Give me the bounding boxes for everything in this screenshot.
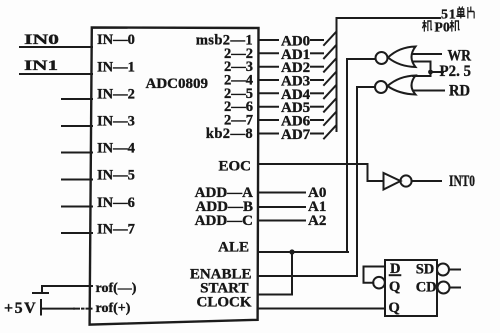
svg-text:IN—7: IN—7 <box>97 222 135 238</box>
svg-text:ALE: ALE <box>218 240 249 256</box>
svg-text:INT0: INT0 <box>449 173 475 190</box>
svg-text:ADD—C: ADD—C <box>195 213 253 229</box>
svg-text:WR: WR <box>448 48 472 65</box>
svg-text:Q: Q <box>389 279 400 295</box>
svg-text:IN—1: IN—1 <box>97 60 135 76</box>
svg-text:A2: A2 <box>308 213 326 229</box>
svg-text:IN—2: IN—2 <box>97 87 135 103</box>
svg-text:ADC0809: ADC0809 <box>146 76 209 92</box>
svg-text:D: D <box>390 261 400 277</box>
svg-text:CD: CD <box>416 280 437 296</box>
svg-text:P2. 5: P2. 5 <box>440 63 472 80</box>
svg-text:Q: Q <box>389 300 400 316</box>
svg-text:IN—5: IN—5 <box>97 168 135 184</box>
svg-text:SD: SD <box>416 262 435 278</box>
svg-text:EOC: EOC <box>218 159 251 175</box>
svg-text:IN—6: IN—6 <box>97 195 135 211</box>
svg-text:IN—0: IN—0 <box>97 32 135 48</box>
svg-text:kb2—8: kb2—8 <box>206 126 253 142</box>
svg-text:IN0: IN0 <box>24 32 59 48</box>
svg-text:IN—4: IN—4 <box>97 141 135 157</box>
svg-text:CLOCK: CLOCK <box>196 295 251 311</box>
svg-text:rof(—): rof(—) <box>96 281 137 296</box>
svg-text:RD: RD <box>449 83 470 100</box>
svg-text:IN1: IN1 <box>24 58 58 74</box>
svg-text:IN—3: IN—3 <box>97 114 135 130</box>
svg-text:AD7: AD7 <box>281 127 311 143</box>
svg-text:rof(+): rof(+) <box>96 301 131 316</box>
svg-text:P0: P0 <box>435 20 450 35</box>
svg-text:+5V: +5V <box>4 300 37 317</box>
